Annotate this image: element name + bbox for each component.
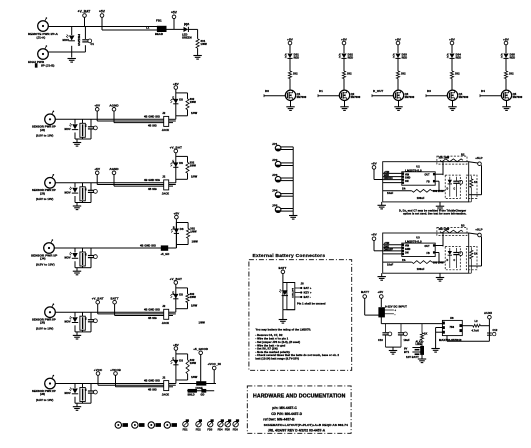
LED DS1 (285, 54, 293, 59)
cap C U3 (455, 248, 457, 253)
svg-text:BAT +: BAT + (304, 286, 312, 290)
bus wires J3 (97, 184, 164, 186)
svg-text:C10: C10 (378, 339, 383, 342)
resistor box J5 (80, 316, 85, 330)
capacitor J6 (88, 390, 97, 394)
terminal +5V(A) (99, 9, 106, 30)
BNC connector J4 (44, 239, 55, 253)
svg-text:332: 332 (293, 72, 298, 76)
wire LED-R cell5 (505, 58, 507, 71)
svg-text:9V: 9V (404, 347, 408, 351)
load return U2 (470, 198, 472, 202)
resistor R3 top (440, 230, 463, 233)
bracket wires row4 (176, 222, 188, 224)
resistor box J2 (80, 123, 85, 137)
svg-text:FD4: FD4 (218, 429, 224, 432)
wire +5V branch (102, 29, 157, 31)
fiducial FD1 (183, 422, 188, 427)
resistor box J4 (80, 252, 85, 266)
svg-text:(0.5V to 10V): (0.5V to 10V) (36, 197, 53, 201)
svg-text:4B SIG: 4B SIG (148, 124, 157, 127)
fiducial FD4 (218, 422, 223, 427)
BNC connector J2 (45, 111, 56, 125)
svg-text:+5LP: +5LP (475, 227, 482, 231)
wire LED-R cell4 (451, 58, 453, 71)
svg-text:12V BATT: 12V BATT (406, 355, 419, 359)
capacitor J4 (88, 255, 97, 259)
ground cell2 (344, 101, 346, 107)
svg-text:BATT: BATT (279, 266, 287, 270)
svg-text:330 1/4W: 330 1/4W (433, 261, 444, 264)
svg-text:GND: GND (384, 246, 390, 248)
bracket wires row3 (176, 155, 188, 157)
wire R-Q cell3 (397, 79, 399, 91)
wire batt L (365, 314, 379, 316)
resistor row6 (186, 360, 189, 374)
jumper line row6 (187, 390, 214, 392)
svg-text:FD5: FD5 (225, 429, 231, 432)
ground cell5 (506, 101, 508, 107)
svg-text:+5V: +5V (341, 37, 348, 41)
svg-text:1K: 1K (474, 181, 477, 184)
MOSFET Q5 (501, 90, 511, 100)
svg-text:BT1: BT1 (404, 350, 410, 354)
ground J4 (73, 271, 81, 275)
svg-text:VIN: VIN (405, 174, 409, 176)
svg-text:RED: RED (294, 56, 300, 59)
resistor row2 (186, 99, 189, 110)
svg-text:J2: J2 (162, 111, 166, 115)
svg-text:4B GND SIG: 4B GND SIG (144, 307, 160, 311)
svg-text:C: C (454, 189, 456, 191)
mounting hole MH2 (132, 422, 138, 428)
svg-text:2N7000: 2N7000 (351, 95, 361, 99)
svg-text:(J4): (J4) (40, 257, 46, 261)
TVS diode J2 (69, 123, 78, 129)
mounting hole MH3 (148, 422, 154, 428)
svg-text:FB: FB (427, 182, 431, 184)
wires U8 left (436, 327, 443, 329)
wire cluster drops J3 (74, 183, 76, 188)
LED DS2 (339, 54, 347, 59)
svg-text:4B SIG: 4B SIG (148, 317, 157, 320)
svg-text:1/8W: 1/8W (201, 42, 208, 46)
svg-text:330 1/4W: 330 1/4W (439, 228, 450, 231)
resistor R2 top (440, 159, 463, 162)
ferrite bead FB1 (146, 19, 166, 37)
cluster rail J3 (75, 202, 91, 204)
svg-text:RED: RED (456, 56, 462, 59)
bracket wires row2 (176, 92, 188, 94)
svg-text:LED: LED (172, 226, 174, 230)
svg-text:1/8W: 1/8W (199, 321, 206, 325)
svg-text:4B SIG: 4B SIG (148, 188, 157, 191)
svg-text:KEY +: KEY + (304, 291, 312, 295)
wire R1 to gnd (197, 48, 199, 55)
svg-text:1/8W: 1/8W (190, 296, 197, 299)
svg-text:1M: 1M (84, 389, 86, 392)
svg-text:(J1-A): (J1-A) (37, 35, 46, 39)
svg-text:LED: LED (172, 357, 174, 361)
wire cluster drops J2 (74, 119, 76, 124)
svg-text:(0.5V to 10V): (0.5V to 10V) (36, 134, 53, 138)
BNC connector J3 (45, 174, 56, 188)
resistor load U3 (470, 247, 472, 250)
svg-text:MOV: MOV (63, 38, 70, 42)
regulator U2 loop (383, 162, 469, 202)
svg-text:RED: RED (402, 56, 408, 59)
dashed box L U3 (466, 246, 477, 269)
svg-text:R2: R2 (461, 152, 465, 156)
wire LED to R1 (188, 28, 198, 30)
svg-text:JACK: JACK (162, 392, 169, 396)
output terminal U2 (469, 162, 480, 164)
wire J2 main (55, 118, 164, 120)
fiducial FD5 (225, 422, 230, 427)
svg-text:BATTERY: BATTERY (291, 288, 294, 299)
fiducial FD3 (208, 422, 213, 427)
svg-text:+VIN: +VIN (384, 243, 390, 245)
wire J5 main (55, 311, 164, 313)
svg-text:ref Dwr: MN-4457-B: ref Dwr: MN-4457-B (263, 418, 295, 422)
svg-text:L1: L1 (146, 26, 150, 30)
mounting hole MH1 (115, 422, 121, 428)
bracket wires row6 (176, 353, 188, 355)
svg-text:J8: J8 (301, 282, 305, 286)
svg-text:(0.5V to 10V): (0.5V to 10V) (36, 262, 55, 266)
wire jack out J3 (169, 182, 176, 184)
pin wires U3 (383, 244, 402, 246)
svg-text:Pin 1 shall be unused: Pin 1 shall be unused (297, 302, 326, 306)
LED DS5 (501, 54, 509, 59)
svg-text:1M: 1M (84, 124, 86, 127)
svg-text:DS: DS (179, 292, 183, 296)
fiducial FD6 (233, 422, 238, 427)
svg-text:ON: ON (405, 252, 409, 254)
cluster rail J5 (75, 331, 91, 333)
svg-text:10uF: 10uF (387, 264, 394, 267)
gate wire cell5 (480, 95, 501, 97)
wire R-Q cell2 (343, 79, 345, 91)
svg-text:D3: D3 (427, 89, 431, 93)
svg-text:+5V: +5V (287, 37, 294, 41)
svg-text:(J2): (J2) (40, 128, 45, 132)
svg-text:4B GND SIG: 4B GND SIG (144, 115, 160, 119)
bus wires J5 (98, 313, 164, 315)
svg-text:+5V: +5V (371, 233, 377, 237)
wire J3 main (55, 182, 164, 184)
svg-text:FD3: FD3 (207, 429, 213, 432)
inductor L2 (462, 325, 473, 327)
svg-text:1/8W: 1/8W (191, 175, 198, 178)
svg-text:1/8W: 1/8W (190, 101, 197, 104)
bus wires J6 (98, 384, 164, 386)
LED DS1 (182, 22, 192, 39)
right return wire U2 (481, 165, 483, 195)
TVS diode D1 (63, 35, 75, 43)
gate wire cell2 (318, 95, 339, 97)
svg-text:FB1: FB1 (156, 19, 162, 23)
jumper rail (292, 147, 294, 214)
svg-text:332: 332 (401, 72, 406, 76)
wire LED-R cell1 (289, 58, 291, 71)
svg-text:DS: DS (180, 227, 184, 231)
resistor box J3 (80, 187, 85, 201)
svg-text:R3: R3 (461, 224, 465, 228)
svg-text:1/8W: 1/8W (190, 362, 197, 365)
cap C12 (487, 332, 492, 334)
bus wires J2 (97, 120, 164, 122)
gate wire cell1 (264, 95, 285, 97)
capacitor J2 (88, 126, 97, 130)
svg-text:+5_GD: +5_GD (161, 252, 170, 256)
svg-text:option is not used. See text: option is not used. See text for more in… (403, 213, 467, 216)
wire cluster drops J5 (74, 312, 76, 317)
svg-text:1K: 1K (474, 253, 477, 256)
svg-text:DS: DS (179, 358, 183, 362)
svg-text:CD P/N: MN-4457-D: CD P/N: MN-4457-D (271, 412, 303, 416)
svg-text:332: 332 (455, 72, 460, 76)
ground caps br (389, 351, 397, 355)
cluster rail J2 (75, 138, 91, 140)
svg-text:MOV: MOV (65, 320, 71, 324)
svg-text:+5V: +5V (503, 37, 510, 41)
pins battery conn (295, 287, 300, 289)
svg-text:External Battery Connectors: External Battery Connectors (253, 253, 326, 259)
battery rect (287, 283, 295, 310)
svg-text:RED: RED (510, 56, 516, 59)
cap C10 (385, 324, 387, 333)
terminal +V_BAT (78, 9, 91, 26)
cap C U2 (455, 177, 457, 182)
svg-text:4B GND SIG: 4B GND SIG (140, 244, 156, 248)
wire J4 out (168, 247, 177, 249)
LED row2 (170, 99, 178, 104)
resistor R2 mid (412, 189, 432, 192)
svg-text:4B GND SIG: 4B GND SIG (144, 379, 160, 383)
resistor R cell5 (504, 71, 507, 79)
svg-text:VIN: VIN (405, 246, 409, 248)
wire battery gnd (282, 310, 284, 320)
svg-text:LED: LED (172, 291, 174, 295)
svg-text:L2: L2 (475, 319, 479, 323)
dashed box battery (249, 260, 352, 371)
svg-text:330 1/4W: 330 1/4W (439, 157, 450, 160)
ground U3 mid (439, 273, 441, 277)
svg-text:MOV: MOV (65, 256, 71, 260)
svg-text:p/n: MN-4457-C: p/n: MN-4457-C (272, 406, 297, 410)
LED row3 (170, 162, 178, 167)
svg-text:1/8W: 1/8W (191, 376, 198, 379)
svg-text:-: - (395, 313, 396, 316)
MOSFET Q3 (393, 90, 403, 100)
ground row1 left (68, 59, 76, 63)
svg-text:(0.5V to 10V): (0.5V to 10V) (36, 398, 53, 402)
svg-text:100uF: 100uF (417, 197, 425, 200)
LED DS3 (393, 54, 401, 59)
ground cell1 (290, 101, 292, 107)
wire cluster drops J6 (74, 384, 76, 389)
inner rail U3 (383, 261, 412, 263)
cap C11 (400, 324, 402, 333)
svg-text:HARDWARE AND DOCUMENTATION: HARDWARE AND DOCUMENTATION (253, 393, 346, 399)
svg-text:JACK: JACK (162, 192, 169, 196)
wire J1-B (48, 51, 85, 53)
label J1-B (28, 60, 54, 68)
LED DS4 (447, 54, 455, 59)
resistor R cell2 (342, 71, 345, 79)
LED row4 (171, 229, 179, 234)
cluster rail J4 (75, 267, 91, 269)
resistor R cell1 (288, 71, 291, 79)
svg-text:D: D (447, 189, 449, 191)
ground U2 mid (439, 202, 441, 206)
wire cluster drops J4 (74, 248, 76, 253)
svg-text:JACK: JACK (162, 128, 169, 132)
svg-text:756: 756 (450, 325, 455, 329)
svg-text:U8: U8 (450, 316, 454, 320)
LED row6 (171, 360, 179, 365)
svg-text:332: 332 (347, 72, 352, 76)
svg-text:D0: D0 (265, 89, 269, 93)
svg-text:JACK: JACK (162, 321, 169, 325)
svg-text:ON: ON (405, 181, 409, 183)
svg-text:2N7000: 2N7000 (297, 95, 307, 99)
BNC connector J5 (45, 303, 56, 317)
MOSFET Q1 (285, 90, 295, 100)
inline fuse F1 (179, 383, 197, 385)
svg-text:2N7000: 2N7000 (405, 95, 415, 99)
dashed box R U3 (437, 227, 467, 235)
svg-text:I/P (J1-B): I/P (J1-B) (41, 63, 54, 67)
wire LED-R cell2 (343, 58, 345, 71)
svg-text:+5V: +5V (171, 11, 178, 15)
svg-text:MOV: MOV (65, 391, 71, 395)
wire jack out J6 (169, 383, 176, 385)
load return U3 (470, 269, 472, 273)
rail br (381, 323, 443, 325)
svg-text:- Remove C4, C7, D2: - Remove C4, C7, D2 (255, 333, 283, 337)
svg-text:2N7000: 2N7000 (513, 95, 523, 99)
svg-text:batt (12-24) batt range (9.7V-: batt (12-24) batt range (9.7V-15V) (255, 356, 299, 360)
battery BT1 (421, 340, 423, 346)
BNC connector J1-A (38, 17, 49, 31)
svg-text:DS: DS (179, 161, 183, 165)
resistor row5 (186, 294, 189, 303)
svg-text:MOV: MOV (65, 190, 71, 194)
terminal +5V(B) (171, 11, 178, 30)
svg-text:(J6): (J6) (40, 392, 45, 396)
ground J3 (73, 206, 81, 210)
resistor box J6 (80, 388, 85, 402)
svg-text:1/8W: 1/8W (190, 231, 197, 234)
fiducial FD2 (196, 422, 201, 427)
wire jack out J5 (169, 311, 176, 313)
ground U2 left (381, 202, 383, 205)
MOSFET Q2 (339, 90, 349, 100)
resistor R cell4 (450, 71, 453, 79)
wire R-Q cell1 (289, 79, 291, 91)
label J1-A (28, 32, 59, 39)
svg-text:DS: DS (179, 97, 183, 101)
right return wire U3 (481, 237, 483, 267)
ground row1 right (193, 56, 201, 60)
TVS diode J4 (69, 252, 78, 258)
svg-text:+5_GOOD: +5_GOOD (193, 347, 209, 351)
diode D U2 (449, 177, 451, 180)
svg-text:+5LP: +5LP (475, 156, 482, 160)
svg-text:1M: 1M (84, 253, 86, 256)
inner rail U2 (383, 190, 412, 192)
wire U8 bottom (446, 336, 448, 342)
svg-text:LED: LED (172, 160, 174, 164)
feedback wire U3 (435, 245, 443, 247)
svg-text:4.7uH: 4.7uH (472, 330, 479, 333)
svg-text:100uF: 100uF (417, 268, 425, 271)
wire R-Q cell5 (505, 79, 507, 91)
svg-text:10uF: 10uF (387, 192, 394, 195)
svg-text:1/8W: 1/8W (191, 305, 198, 308)
dashed box R U2 (437, 156, 467, 164)
output terminal U3 (469, 233, 480, 235)
svg-text:- Wire the batt +/ to pin 1: - Wire the batt +/ to pin 1 (255, 337, 288, 341)
svg-text:2N7000: 2N7000 (459, 95, 469, 99)
resistor row3 (186, 162, 189, 173)
resistor load U2 (470, 176, 472, 179)
svg-text:SHLD: SHLD (188, 394, 195, 397)
ground cell4 (452, 101, 454, 107)
svg-text:RED: RED (348, 56, 354, 59)
svg-text:LED: LED (172, 96, 174, 100)
TVS diode J6 (69, 388, 78, 394)
svg-text:J2: J2 (162, 375, 166, 379)
svg-text:D_OUT: D_OUT (373, 89, 383, 93)
svg-text:4B SIG: 4B SIG (148, 389, 157, 392)
BNC connector J6 (45, 375, 56, 389)
ground U8 (431, 349, 439, 353)
svg-text:FB: FB (427, 253, 431, 255)
TVS diode J3 (69, 187, 78, 193)
dashed box DC U3 (445, 246, 460, 269)
ground jumper chain (289, 216, 297, 220)
resistor R1 (196, 39, 207, 48)
mounting hole MH4 (164, 422, 170, 428)
dashed box L U2 (466, 175, 477, 198)
svg-text:1/8W: 1/8W (192, 241, 199, 244)
BNC connector J1-B (38, 45, 49, 59)
svg-text:+VIN: +VIN (384, 172, 390, 174)
svg-text:+VCC_IN: +VCC_IN (207, 362, 220, 366)
svg-text:AUX5: AUX5 (484, 311, 492, 315)
cluster rail J6 (75, 402, 91, 404)
capacitor J5 (88, 319, 97, 323)
resistor R3 mid (412, 261, 432, 264)
wire J6 main (55, 383, 164, 385)
dashed box DC U2 (445, 175, 460, 198)
IC U2 LM2575 (402, 172, 435, 185)
gate wire cell3 (372, 95, 393, 97)
svg-text:BEAD: BEAD (155, 32, 163, 36)
ground J5 (73, 335, 81, 339)
svg-text:+5V: +5V (449, 37, 456, 41)
svg-text:You may battery the rating of: You may battery the rating of the LM2575… (256, 327, 312, 331)
svg-text:SCHEMATIC+LAYOUT(P+PLOT)+A+B R: SCHEMATIC+LAYOUT(P+PLOT)+A+B REQD AS 862… (264, 423, 348, 427)
resistor row4 (187, 229, 190, 239)
bracket battery (282, 283, 284, 310)
svg-text:BATT: BATT (361, 290, 369, 294)
node stub (71, 27, 73, 36)
ground cell3 (398, 101, 400, 107)
